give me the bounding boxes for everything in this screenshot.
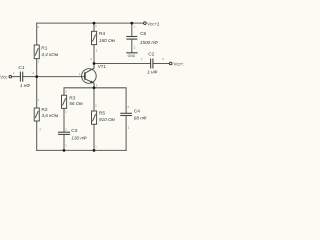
svg-text:910 Ом: 910 Ом (99, 117, 116, 123)
wire R5 top lead (93, 88, 95, 111)
svg-text:C1: C1 (18, 65, 24, 71)
svg-text:R3: R3 (69, 95, 75, 101)
capacitor C5 (126, 37, 137, 40)
capacitor C2 (151, 59, 153, 69)
wire C5 top lead (131, 23, 133, 36)
node junction collector (93, 62, 96, 65)
label C2 (147, 51, 157, 75)
svg-text:R4: R4 (99, 31, 105, 37)
svg-text:68 пФ: 68 пФ (134, 115, 147, 121)
label R1 (41, 45, 59, 58)
wire emitter node to C4 branch (94, 88, 126, 113)
wire R1 top lead (36, 23, 38, 45)
label R4 (99, 31, 116, 44)
svg-text:4,4 кОм: 4,4 кОм (41, 52, 59, 58)
node junction R5 bottom (93, 149, 96, 152)
label R2 (41, 107, 59, 119)
svg-text:C4: C4 (134, 108, 140, 114)
wire base node to transistor (37, 76, 85, 78)
wire R4 top lead (93, 23, 95, 31)
svg-text:1 нФ: 1 нФ (147, 69, 157, 75)
svg-text:56 Ом: 56 Ом (69, 101, 83, 107)
svg-text:R1: R1 (41, 45, 47, 51)
node junction R4 top (93, 22, 96, 25)
wire C1 to base node (23, 76, 37, 78)
svg-text:R5: R5 (99, 111, 105, 117)
node input terminal (9, 75, 12, 78)
label R3 (69, 95, 83, 107)
resistor R2 (34, 108, 39, 121)
node junction base (35, 75, 38, 78)
svg-text:C3: C3 (71, 128, 77, 134)
wire C4 to bottom rail (125, 116, 127, 151)
svg-text:C5: C5 (140, 31, 146, 37)
resistor R5 (92, 111, 97, 124)
wire R5 bottom lead (93, 124, 95, 150)
wire C5 bottom lead (131, 39, 133, 52)
wire collector node to C2 (94, 63, 150, 65)
resistor R1 (34, 45, 39, 59)
capacitor C4 (120, 113, 132, 115)
svg-text:C2: C2 (148, 51, 154, 57)
wire emitter node to R3 branch (64, 88, 94, 95)
wire R2 bottom lead (36, 121, 38, 150)
svg-text:130 пФ: 130 пФ (71, 136, 87, 142)
svg-text:3,6 кОм: 3,6 кОм (41, 113, 59, 119)
resistor R4 (92, 31, 97, 44)
node junction C5 top (130, 22, 133, 25)
transistor VT1 (82, 64, 97, 88)
label C4 (134, 108, 147, 121)
capacitor C3 (58, 132, 70, 134)
wire C3 to bottom rail (63, 135, 65, 151)
wire R1 bottom lead (36, 59, 38, 77)
wire C2 to output terminal (153, 63, 169, 65)
resistor R3 (62, 95, 67, 108)
pin numbers (13, 24, 165, 149)
capacitor C1 (20, 72, 22, 82)
wire input terminal to C1 (12, 76, 20, 78)
label C3 (71, 128, 87, 142)
node junction C3 bottom (63, 149, 66, 152)
ground (126, 53, 137, 58)
svg-text:1500 пФ: 1500 пФ (140, 40, 158, 46)
svg-text:VT1: VT1 (98, 64, 107, 69)
svg-text:Vcc+2: Vcc+2 (147, 21, 160, 26)
svg-text:Vcc+1: Vcc+1 (174, 61, 185, 66)
node top-right terminal Vcc+2 (144, 22, 147, 25)
svg-text:Vcc: Vcc (0, 75, 8, 80)
node output terminal Vcc+1 (169, 62, 172, 65)
label C5 (140, 31, 158, 46)
label R5 (99, 111, 116, 124)
wire base node to R2 (36, 77, 38, 108)
label C1 (18, 65, 30, 89)
wire R4 bottom lead (93, 45, 95, 64)
svg-text:1 нФ: 1 нФ (20, 83, 30, 89)
svg-text:GND: GND (128, 54, 136, 58)
wire bottom rail (37, 149, 126, 151)
svg-text:R2: R2 (41, 107, 47, 113)
node junction emitter (93, 86, 96, 89)
wire top rail (37, 22, 144, 24)
svg-text:180 Ом: 180 Ом (99, 38, 116, 44)
wire R3 to C3 (63, 108, 65, 131)
